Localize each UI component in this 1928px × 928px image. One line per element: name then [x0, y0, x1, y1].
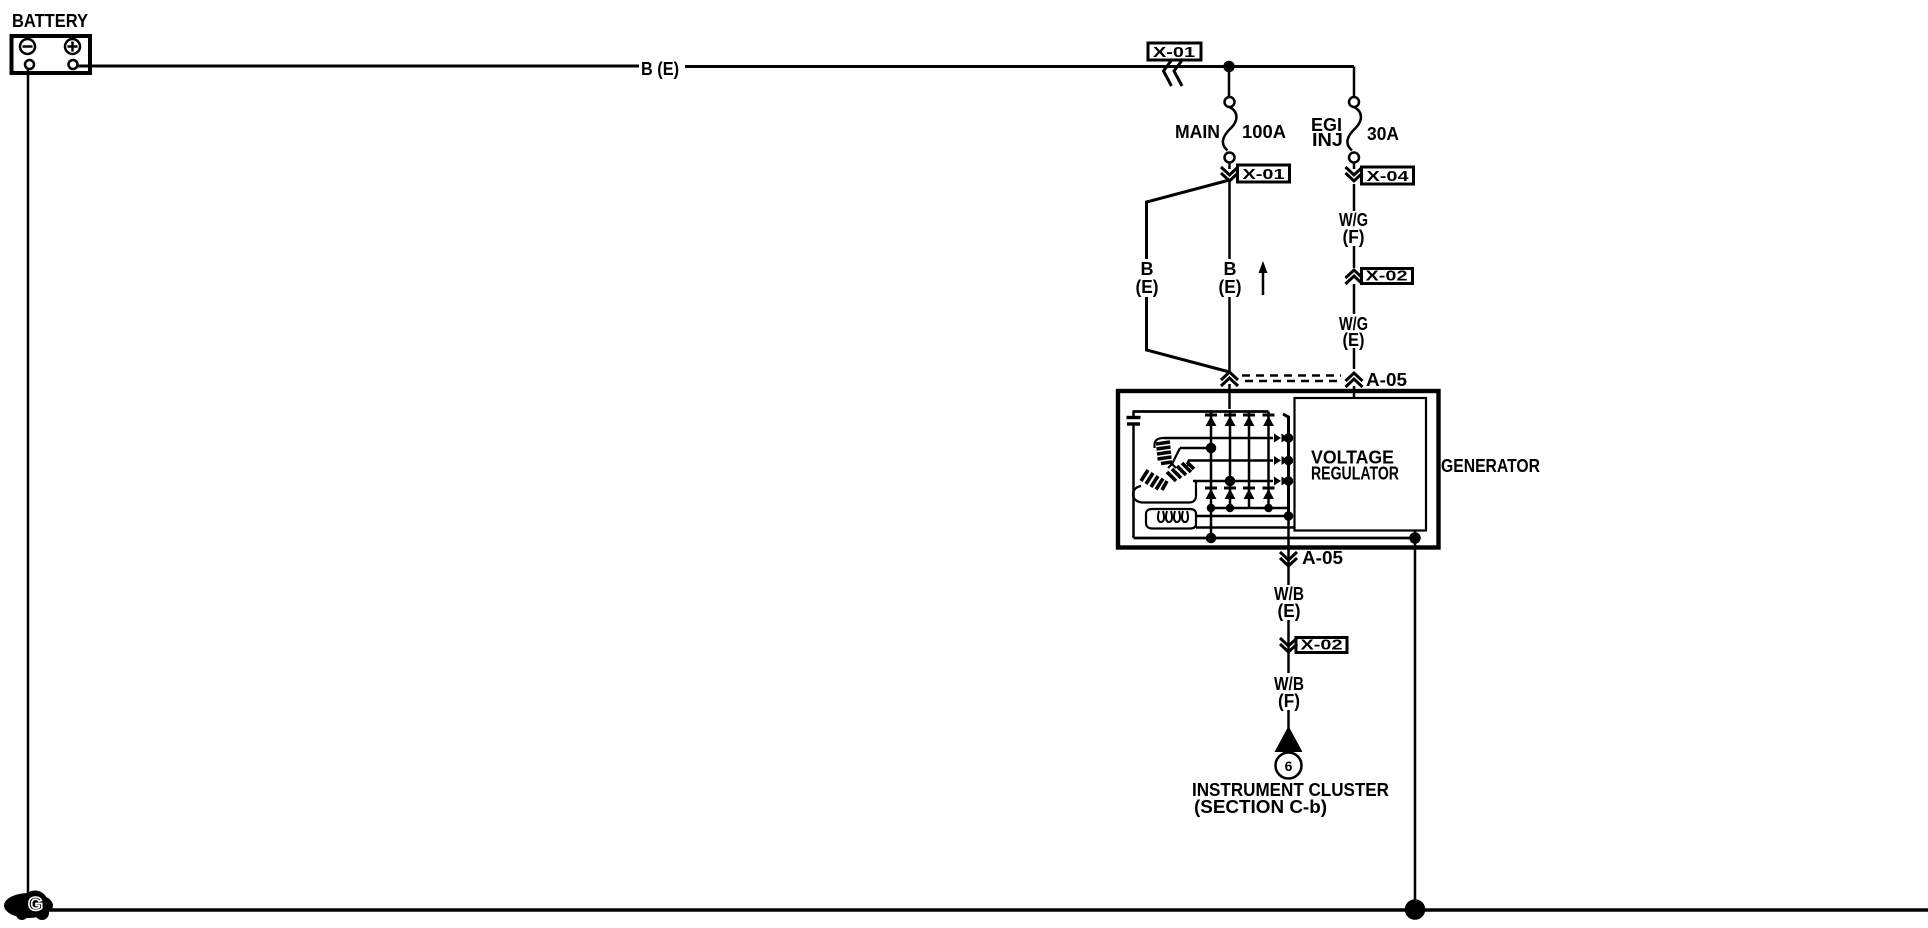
svg-text:G: G — [28, 895, 43, 916]
svg-text:GENERATOR: GENERATOR — [1441, 456, 1540, 476]
svg-text:(F): (F) — [1278, 691, 1300, 711]
svg-text:MAIN: MAIN — [1175, 122, 1220, 142]
svg-text:(E): (E) — [1136, 277, 1159, 297]
svg-text:(E): (E) — [1343, 330, 1365, 350]
svg-text:X-02: X-02 — [1301, 637, 1343, 654]
svg-text:30A: 30A — [1367, 124, 1399, 144]
svg-text:X-02: X-02 — [1366, 268, 1408, 285]
svg-text:6: 6 — [1285, 758, 1293, 774]
svg-text:(E): (E) — [1219, 277, 1242, 297]
svg-text:X-01: X-01 — [1153, 44, 1195, 61]
svg-text:B: B — [1141, 259, 1154, 279]
svg-text:100A: 100A — [1242, 122, 1286, 142]
svg-text:BATTERY: BATTERY — [12, 11, 88, 31]
svg-text:A-05: A-05 — [1302, 548, 1343, 568]
svg-text:X-01: X-01 — [1243, 166, 1285, 183]
svg-text:(F): (F) — [1343, 227, 1365, 247]
svg-text:REGULATOR: REGULATOR — [1311, 464, 1399, 484]
svg-text:(SECTION C-b): (SECTION C-b) — [1194, 797, 1327, 817]
svg-text:B (E): B (E) — [641, 59, 679, 79]
svg-text:(E): (E) — [1278, 601, 1301, 621]
svg-text:INJ: INJ — [1312, 130, 1343, 150]
svg-text:X-04: X-04 — [1367, 168, 1410, 185]
svg-text:B: B — [1224, 259, 1237, 279]
svg-text:A-05: A-05 — [1366, 370, 1407, 390]
